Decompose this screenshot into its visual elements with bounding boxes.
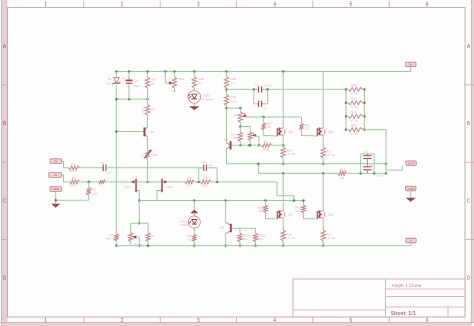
svg-text:R19: R19: [351, 83, 357, 87]
svg-text:V-: V-: [410, 239, 413, 243]
resistor R23 .47 3w: [346, 123, 364, 135]
wire Q10 source: [156, 190, 158, 200]
wire R7 to Q1 gate: [105, 181, 130, 183]
svg-text:.47 3w: .47 3w: [350, 105, 359, 109]
svg-text:4: 4: [273, 318, 276, 324]
svg-text:Q1B: Q1B: [167, 185, 173, 189]
svg-text:10k: 10k: [140, 153, 144, 158]
jfet Q1: [125, 179, 148, 192]
svg-text:.47 3w: .47 3w: [287, 152, 296, 156]
wire Q6 drain feed: [322, 72, 324, 127]
wire R8 R9: [194, 181, 200, 184]
svg-text:2: 2: [121, 318, 124, 324]
resistor R2 22k1: [69, 176, 79, 187]
transistor Q3: [224, 138, 232, 164]
mosfet Q6: [313, 127, 332, 137]
resistor R9 221k: [200, 176, 211, 187]
resistor R19 .47 3w: [346, 83, 364, 95]
svg-text:R16: R16: [340, 167, 346, 171]
wire R17 to sense: [322, 158, 325, 165]
wire C2/C3 loop: [254, 89, 268, 103]
jfet Q10: [148, 179, 173, 192]
wire lower gate row: [139, 199, 303, 202]
capacitor C5 1uF: [199, 160, 217, 182]
svg-text:BIAS: BIAS: [181, 223, 188, 227]
svg-text:475: 475: [187, 238, 192, 242]
capacitor C1 1uF: [101, 161, 112, 175]
wire to trimmer P2: [240, 127, 250, 133]
wire R17B to V- rail: [322, 241, 325, 247]
svg-text:C4: C4: [134, 78, 138, 82]
svg-text:R8: R8: [188, 176, 192, 180]
svg-text:C7: C7: [370, 163, 374, 167]
wire V+ riser: [410, 67, 412, 72]
svg-text:-IN: -IN: [53, 173, 57, 177]
wire R31 wiper tap: [165, 72, 171, 84]
wire R26 tap to trimmer P1: [227, 107, 242, 110]
port label GND input: [50, 187, 62, 192]
ground under LED2: [189, 106, 200, 110]
svg-text:R30: R30: [152, 153, 158, 157]
wire C4 leads: [128, 72, 130, 100]
resistor R17 .47 3w: [321, 147, 336, 158]
trimmer P3 2k: [128, 223, 137, 246]
svg-text:221: 221: [258, 209, 263, 213]
svg-text:3: 3: [197, 318, 200, 324]
svg-text:220uF: 220uF: [376, 173, 385, 177]
svg-text:1k2: 1k2: [340, 176, 345, 180]
svg-text:331: 331: [259, 237, 264, 241]
svg-text:.47 3w: .47 3w: [327, 236, 336, 240]
wire -IN to R2: [62, 175, 70, 182]
arrow above LED1: [190, 210, 198, 214]
svg-text:R1: R1: [72, 162, 76, 166]
wire bank to output: [364, 130, 386, 174]
svg-text:.47 3w: .47 3w: [350, 118, 359, 122]
wire Q5 source to R14: [282, 136, 284, 147]
svg-text:Sheet: 1/1: Sheet: 1/1: [391, 311, 417, 317]
wire Q6 source to R17: [322, 136, 324, 147]
LED1 BIAS: [180, 213, 200, 228]
svg-text:R31: R31: [179, 77, 185, 81]
port label GND right: [406, 186, 416, 191]
title block: [293, 279, 465, 317]
trimmer R31: [169, 72, 184, 93]
resistor R16A 331: [253, 228, 266, 247]
wire GND right: [410, 191, 412, 198]
port label -IN: [49, 173, 62, 178]
resistor R7B 1k: [146, 223, 155, 245]
wire R17A to bias row: [239, 141, 242, 146]
svg-text:143: 143: [231, 81, 236, 85]
wire C1 to C5: [106, 167, 199, 169]
resistor R17A 680: [231, 132, 243, 141]
transistor Q9: [220, 201, 232, 247]
trimmer P2: [248, 132, 256, 141]
wire V- rail: [116, 244, 411, 247]
svg-text:221: 221: [267, 125, 272, 129]
wire output to OUT port: [386, 166, 403, 174]
svg-text:Q2: Q2: [150, 130, 154, 134]
wire R4 to Q2 collector: [147, 115, 149, 127]
svg-text:Q1A: Q1A: [125, 185, 131, 189]
wire Q9 base: [232, 227, 256, 229]
resistor R25: [224, 77, 236, 89]
resistor R7 22: [99, 180, 106, 187]
wire output line: [258, 172, 387, 175]
svg-text:R4: R4: [151, 108, 155, 112]
zener D1: [106, 77, 120, 85]
svg-text:1k: 1k: [264, 139, 268, 143]
resistor R6 1k: [145, 77, 155, 88]
trimmer P3 wiper: [132, 235, 140, 246]
supply label V+: [406, 62, 416, 67]
svg-text:.47 3w: .47 3w: [327, 153, 336, 157]
wire Q3 base row: [232, 144, 262, 147]
svg-text:22: 22: [100, 183, 104, 187]
svg-text:GND: GND: [52, 187, 60, 191]
wire power resistor bank rails: [345, 88, 366, 131]
gate resistor R13 221: [257, 201, 273, 219]
wire Q1 source: [138, 190, 141, 201]
port label OUT: [406, 161, 416, 166]
wire trimmer P1 bottom: [239, 123, 242, 133]
resistor R29 475: [186, 228, 196, 247]
resistor R26: [224, 95, 237, 106]
svg-text:POWER: POWER: [202, 97, 214, 101]
trimmer P1: [234, 108, 246, 122]
wire R25 branch: [225, 72, 228, 95]
svg-text:Q5: Q5: [288, 130, 292, 134]
resistor R1 22k1: [69, 162, 80, 173]
wire R6 chain: [147, 72, 149, 105]
resistor R5: [106, 233, 119, 247]
wire source sense rail: [227, 162, 388, 165]
resistor R3 221k: [87, 182, 99, 200]
gate resistor R12 221: [295, 199, 313, 219]
svg-text:IN: IN: [54, 159, 57, 163]
transistor Q2: [144, 127, 155, 151]
svg-text:6: 6: [426, 318, 429, 324]
svg-text:680: 680: [233, 136, 238, 140]
svg-text:.47 3w: .47 3w: [287, 236, 296, 240]
wire R18 to Q5 source: [272, 144, 285, 147]
wire sense drop to output: [257, 162, 260, 173]
svg-text:R22: R22: [351, 110, 357, 114]
mosfet Q5: [273, 127, 292, 137]
resistor R8 22: [185, 176, 194, 187]
svg-text:D: D: [467, 276, 471, 282]
wire P2 bottom: [249, 141, 252, 147]
trimmer R30: [140, 150, 157, 159]
svg-text:C5: C5: [209, 163, 213, 167]
svg-text:.47 3w: .47 3w: [350, 132, 359, 136]
svg-text:1uF: 1uF: [107, 171, 112, 175]
wire V+ top rail: [116, 71, 410, 73]
svg-text:C6: C6: [364, 150, 368, 154]
svg-text:C3: C3: [263, 106, 267, 110]
svg-text:221k: 221k: [201, 183, 208, 187]
svg-text:D: D: [3, 276, 7, 282]
wire IN to R1: [62, 161, 69, 168]
svg-text:3k32: 3k32: [231, 99, 238, 103]
svg-text:1k: 1k: [152, 82, 156, 86]
svg-text:221: 221: [305, 126, 310, 130]
wire R30 to input pair: [146, 159, 149, 184]
wire Q8 drain: [322, 173, 324, 209]
wire P2 wiper: [254, 136, 261, 146]
svg-text:C: C: [467, 198, 471, 204]
resistor R15A 332: [238, 228, 251, 247]
resistor R21 .47 3w: [346, 97, 364, 109]
wire V- riser: [410, 243, 412, 246]
svg-text:C1: C1: [101, 161, 105, 165]
svg-text:C: C: [3, 198, 7, 204]
resistor R18 1k: [261, 139, 271, 151]
svg-text:Aleph J Clone: Aleph J Clone: [392, 283, 422, 288]
svg-text:332: 332: [243, 237, 248, 241]
wire Q10 gate to R8: [168, 181, 185, 183]
svg-text:Q6: Q6: [328, 130, 332, 134]
resistor R22 .47 3w: [346, 110, 364, 122]
svg-text:V+: V+: [409, 63, 413, 67]
wire Q8 source: [322, 219, 324, 230]
gate resistor R11 221: [300, 117, 314, 136]
wire current-source sense line: [227, 88, 347, 91]
ground symbol input: [51, 204, 60, 208]
svg-text:10uF: 10uF: [133, 84, 140, 88]
wire R26 to Q3 collector: [225, 106, 228, 143]
capacitor C2 220uF: [255, 83, 272, 93]
wire feedback to lower gates: [277, 182, 294, 201]
resistor R4: [141, 105, 155, 115]
resistor R28 4k7: [192, 77, 204, 89]
wire bias split: [131, 222, 149, 224]
wire upper gate feed: [245, 116, 302, 119]
svg-text:220uF: 220uF: [263, 83, 272, 87]
svg-text:Q7: Q7: [288, 213, 292, 217]
svg-text:221: 221: [296, 209, 301, 213]
wire LED1 top: [193, 201, 195, 210]
wire R14 to sense: [282, 158, 285, 165]
svg-text:OUT: OUT: [408, 161, 415, 165]
svg-text:22k1: 22k1: [70, 183, 77, 187]
wire Q2 base: [115, 130, 143, 133]
gate resistor R10 221: [262, 117, 274, 136]
wire Q7 source: [282, 219, 284, 230]
svg-text:1: 1: [44, 318, 47, 324]
svg-text:Q9: Q9: [220, 226, 224, 230]
svg-text:R9: R9: [204, 176, 208, 180]
svg-text:Q3: Q3: [224, 138, 228, 142]
wire R15 to V- rail: [282, 241, 285, 247]
capacitor C4 10uF: [123, 76, 141, 87]
frame row zone ticks and letters A-D: [2, 44, 474, 282]
svg-text:4.75k: 4.75k: [141, 107, 145, 115]
wire R9 out: [211, 181, 277, 184]
resistor R15 .47 3w: [281, 230, 296, 241]
mosfet Q8: [313, 210, 332, 220]
wire R2 to R7: [80, 181, 99, 184]
svg-text:R18: R18: [263, 148, 269, 152]
svg-text:10k: 10k: [171, 89, 176, 93]
svg-text:.47 3w: .47 3w: [350, 92, 359, 96]
wire Q7 drain: [282, 173, 284, 209]
resistor R16: [338, 167, 347, 179]
svg-text:5: 5: [350, 318, 353, 324]
wire zener reference net: [115, 72, 117, 234]
svg-text:R2: R2: [72, 176, 76, 180]
ground symbol right: [406, 198, 416, 202]
svg-text:22: 22: [187, 183, 191, 187]
capacitors C6 C7 220uF: [361, 150, 385, 178]
svg-text:R23: R23: [351, 123, 357, 127]
svg-text:22k1: 22k1: [70, 169, 77, 173]
svg-text:D1: D1: [108, 77, 112, 81]
mosfet Q7: [273, 210, 292, 220]
svg-text:4k7: 4k7: [198, 81, 203, 85]
svg-text:C2: C2: [255, 83, 259, 87]
wire bias tail: [138, 201, 141, 225]
wire GND net: [54, 191, 88, 203]
wire LED2 to ground: [193, 103, 195, 106]
wire R1 to C1: [80, 167, 104, 169]
svg-text:GND: GND: [407, 187, 415, 191]
resistor R14 .47 3w: [281, 147, 296, 158]
svg-text:9V1: 9V1: [106, 82, 112, 86]
wire Q5 drain feed: [282, 72, 284, 127]
resistor R17B .47 3w: [321, 230, 336, 241]
svg-text:+: +: [123, 76, 125, 80]
svg-text:R21: R21: [351, 97, 357, 101]
svg-text:221k: 221k: [92, 191, 99, 195]
svg-text:Q8: Q8: [328, 213, 332, 217]
LED2 POWER: [188, 91, 214, 104]
svg-text:68k: 68k: [234, 113, 239, 117]
junctions on V+ rail: [115, 70, 284, 73]
wire R28 branch: [193, 72, 195, 91]
svg-text:1k: 1k: [151, 234, 155, 238]
svg-text:1uF: 1uF: [201, 160, 206, 164]
capacitor C3: [259, 101, 268, 111]
svg-text:48.75: 48.75: [106, 237, 114, 241]
supply label V-: [406, 238, 416, 243]
wire zener to C4 bottom: [115, 98, 149, 101]
port label IN: [50, 159, 62, 164]
